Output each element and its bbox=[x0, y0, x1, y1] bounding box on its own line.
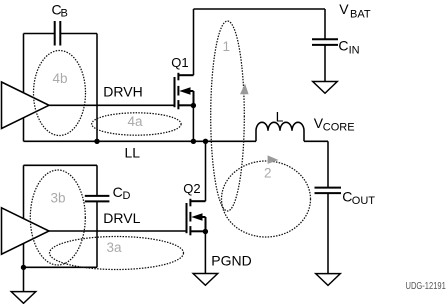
node lower box ground junction bbox=[21, 265, 26, 270]
svg-text:BAT: BAT bbox=[350, 8, 371, 20]
svg-text:4a: 4a bbox=[128, 114, 144, 129]
transistor Q1 bbox=[175, 73, 194, 110]
wire LL net horizontal bbox=[24, 140, 257, 142]
arrow loop 2 direction bbox=[268, 155, 279, 164]
wire lower box top bbox=[24, 164, 98, 166]
transistor Q2 bbox=[187, 199, 206, 236]
loop ellipse 3b bbox=[30, 170, 85, 265]
wire Q1 drain up bbox=[193, 9, 195, 75]
svg-text:Q2: Q2 bbox=[183, 181, 200, 196]
svg-text:L: L bbox=[276, 108, 284, 124]
node LL junction Q2 bbox=[203, 139, 208, 144]
svg-text:PGND: PGND bbox=[211, 253, 251, 269]
svg-text:2: 2 bbox=[264, 166, 272, 181]
loop ellipse 3a bbox=[50, 237, 184, 270]
inductor L bbox=[256, 122, 304, 141]
node Q2 source junction bbox=[203, 229, 208, 234]
wire lower box right lower bbox=[96, 201, 98, 267]
wire DRVH bbox=[49, 104, 175, 106]
capacitor CIN plates bbox=[312, 39, 338, 45]
node LL junction box bbox=[94, 139, 99, 144]
op-amp driver buffer U2 (low side) bbox=[2, 208, 50, 254]
wire Q2 source down to PGND bbox=[204, 231, 206, 273]
capacitor CD plates bbox=[85, 196, 110, 202]
loop ellipse 4b bbox=[34, 51, 86, 136]
node LL junction Q1 bbox=[191, 139, 196, 144]
capacitor CB plates bbox=[55, 21, 61, 46]
svg-text:3a: 3a bbox=[107, 240, 123, 255]
loop ellipse 1 bbox=[211, 21, 245, 211]
svg-text:3b: 3b bbox=[51, 191, 66, 206]
wire VBAT down to CIN bbox=[324, 9, 326, 39]
svg-text:IN: IN bbox=[349, 45, 360, 57]
wire top rail to VBAT bbox=[194, 8, 326, 10]
ground lower left bbox=[11, 292, 36, 304]
wire upper box left side bbox=[23, 34, 25, 142]
loop ellipse 4a bbox=[92, 113, 181, 135]
wire to ground bbox=[23, 267, 25, 291]
wire lower box right upper bbox=[96, 165, 98, 196]
wire upper box right side bbox=[96, 34, 98, 142]
svg-text:B: B bbox=[61, 8, 68, 20]
svg-text:4b: 4b bbox=[53, 71, 68, 86]
op-amp driver buffer U1 (high side) bbox=[2, 82, 50, 129]
svg-text:1: 1 bbox=[223, 39, 231, 54]
svg-text:OUT: OUT bbox=[352, 195, 376, 207]
svg-text:UDG-12191: UDG-12191 bbox=[406, 281, 446, 292]
wire DRVL bbox=[49, 230, 187, 232]
wire Q2 drain up to LL bbox=[205, 141, 207, 201]
ground COUT bbox=[316, 274, 341, 286]
wire CIN to ground bbox=[324, 45, 326, 82]
wire upper box top-left to CB bbox=[24, 33, 55, 35]
svg-text:V: V bbox=[339, 1, 349, 17]
svg-text:C: C bbox=[113, 184, 123, 200]
svg-text:DRVL: DRVL bbox=[103, 210, 140, 226]
svg-text:CORE: CORE bbox=[323, 121, 355, 133]
ground CIN bbox=[313, 82, 338, 94]
svg-text:LL: LL bbox=[125, 144, 141, 160]
svg-text:C: C bbox=[338, 38, 348, 54]
wire L to VCORE node bbox=[304, 140, 328, 142]
svg-text:Q1: Q1 bbox=[171, 55, 188, 70]
wire lower box left side bbox=[23, 165, 25, 267]
wire CB to upper box top-right bbox=[60, 33, 97, 35]
node Q1 source junction bbox=[191, 103, 196, 108]
arrow loop 1 direction bbox=[240, 84, 249, 95]
wire lower box bottom bbox=[24, 266, 98, 268]
wire VCORE down to COUT bbox=[327, 141, 329, 187]
svg-text:DRVH: DRVH bbox=[103, 84, 142, 100]
ground PGND bbox=[193, 274, 218, 286]
svg-text:C: C bbox=[342, 189, 352, 205]
wire Q1 source down to LL bbox=[192, 105, 194, 141]
svg-text:D: D bbox=[123, 190, 131, 202]
wire COUT to ground bbox=[327, 193, 329, 274]
loop ellipse 2 bbox=[222, 161, 311, 237]
capacitor COUT plates bbox=[315, 188, 342, 194]
